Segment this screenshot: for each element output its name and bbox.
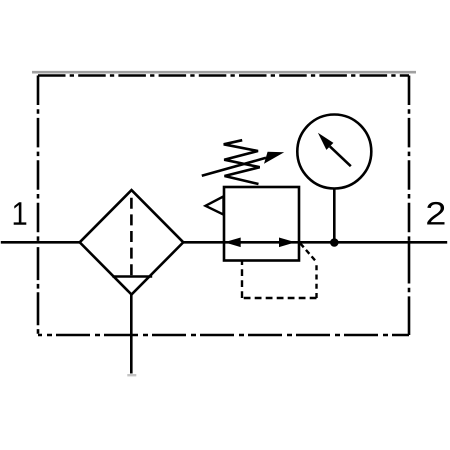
filter condensate chord <box>112 275 152 278</box>
regulator R1 body <box>224 187 299 261</box>
gauge G1 stem wire <box>333 189 336 243</box>
gauge needle shaft <box>330 146 351 166</box>
drain end tick <box>127 374 136 376</box>
wire filter to regulator <box>183 241 226 244</box>
wire inlet from port 1 <box>1 241 81 244</box>
pilot line diagonal dashed <box>300 243 316 262</box>
enclosure dash-dot border right <box>408 76 411 243</box>
regulator flow line <box>225 241 298 244</box>
port label 1 <box>14 202 27 225</box>
pilot line left vertical dashed <box>241 260 243 298</box>
pilot line right vertical dashed <box>315 262 317 298</box>
pilot line bottom horizontal dashed <box>242 297 317 299</box>
regulator adjustment spring <box>224 140 260 184</box>
port label 2 <box>427 202 444 225</box>
regulator relief triangle <box>206 196 224 214</box>
filter element dashed line <box>130 198 133 276</box>
regulator adjustment arrowhead <box>264 152 284 164</box>
enclosure dash-dot border bottom <box>38 334 409 337</box>
regulator flow arrowhead left <box>224 238 240 248</box>
enclosure dash-dot border top <box>38 74 409 77</box>
enclosure top gray line <box>32 71 416 74</box>
gauge G1 dial <box>297 115 371 189</box>
regulator flow arrowhead right <box>279 238 295 248</box>
junction node dot <box>330 238 339 247</box>
wire drain <box>130 294 133 374</box>
gauge needle arrowhead <box>318 133 334 150</box>
regulator adjustment arrow shaft <box>202 158 266 176</box>
wire outlet to port 2 <box>298 241 447 244</box>
enclosure dash-dot border left <box>37 76 40 243</box>
filter F1 diamond <box>80 190 184 294</box>
